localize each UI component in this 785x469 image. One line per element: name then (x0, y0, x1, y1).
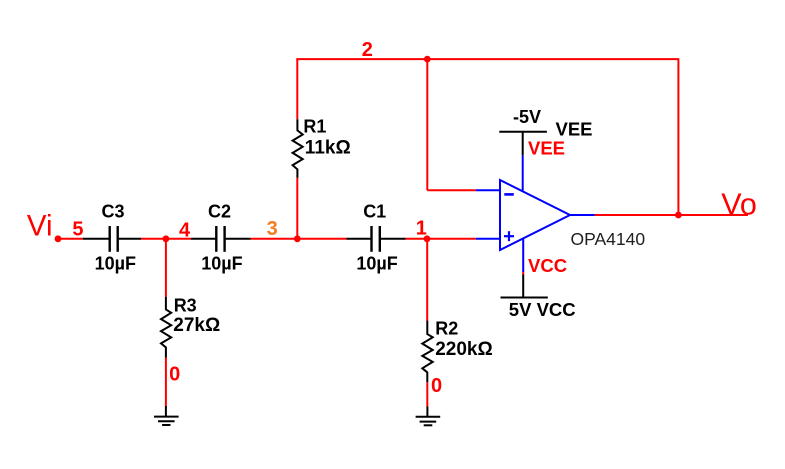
svg-text:220kΩ: 220kΩ (435, 339, 493, 360)
svg-text:Vo: Vo (721, 187, 757, 221)
svg-text:VCC: VCC (528, 255, 567, 276)
svg-text:10µF: 10µF (95, 254, 136, 274)
svg-text:VEE: VEE (556, 118, 593, 139)
svg-text:C3: C3 (102, 201, 125, 221)
svg-text:2: 2 (362, 39, 373, 61)
svg-text:VEE: VEE (528, 137, 565, 158)
svg-text:10µF: 10µF (201, 254, 242, 274)
svg-text:Vi: Vi (27, 210, 53, 243)
svg-text:R1: R1 (303, 116, 326, 136)
svg-text:0: 0 (431, 375, 442, 397)
svg-text:5: 5 (72, 218, 83, 240)
svg-text:C2: C2 (208, 201, 231, 221)
svg-text:0: 0 (169, 364, 180, 386)
svg-text:11kΩ: 11kΩ (305, 138, 351, 159)
svg-text:R2: R2 (435, 318, 458, 338)
svg-text:4: 4 (179, 220, 191, 242)
svg-text:27kΩ: 27kΩ (173, 315, 220, 336)
svg-text:R3: R3 (174, 295, 197, 315)
svg-text:10µF: 10µF (356, 254, 397, 274)
svg-text:3: 3 (267, 218, 278, 240)
svg-text:OPA4140: OPA4140 (571, 229, 646, 249)
svg-text:1: 1 (416, 218, 427, 240)
svg-text:C1: C1 (363, 201, 386, 221)
svg-text:5V VCC: 5V VCC (509, 299, 576, 320)
svg-text:-5V: -5V (513, 107, 541, 127)
